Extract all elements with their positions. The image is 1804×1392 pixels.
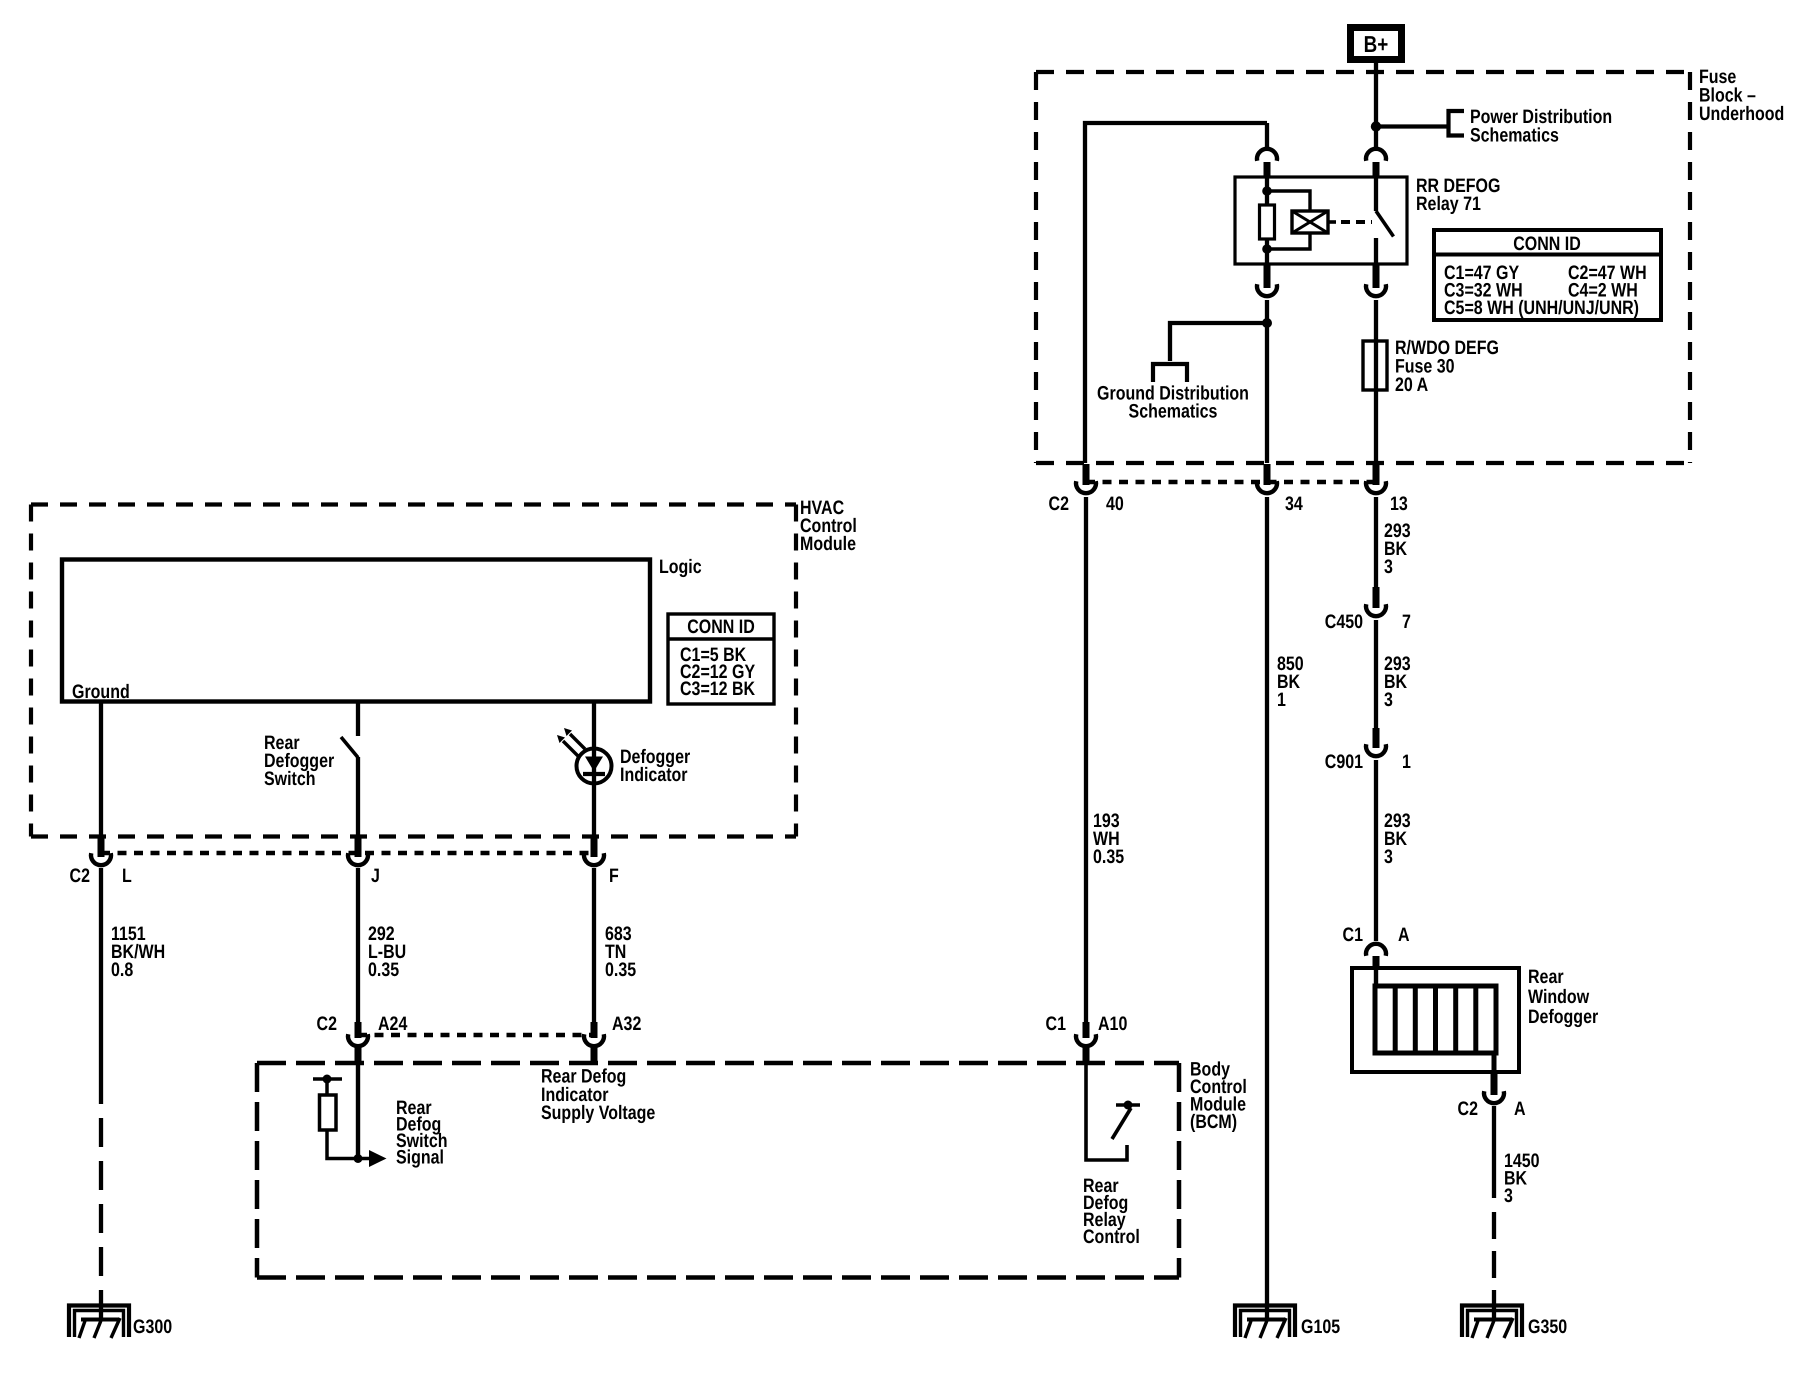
svg-text:34: 34	[1285, 493, 1303, 515]
svg-text:L: L	[122, 865, 132, 887]
svg-text:B+: B+	[1364, 31, 1389, 57]
svg-text:3: 3	[1384, 556, 1393, 578]
svg-text:1: 1	[1402, 751, 1411, 773]
svg-text:CONN ID: CONN ID	[1513, 233, 1581, 255]
svg-text:1: 1	[1277, 689, 1286, 711]
svg-text:0.35: 0.35	[368, 959, 399, 981]
svg-text:Signal: Signal	[396, 1147, 444, 1169]
svg-text:Underhood: Underhood	[1699, 103, 1784, 125]
svg-text:A10: A10	[1098, 1013, 1127, 1035]
svg-text:A24: A24	[378, 1013, 407, 1035]
svg-text:C1: C1	[1343, 924, 1364, 946]
svg-text:13: 13	[1390, 493, 1408, 515]
svg-text:Switch: Switch	[264, 768, 316, 790]
svg-text:Rear: Rear	[1528, 966, 1564, 988]
svg-text:0.35: 0.35	[605, 959, 636, 981]
svg-text:Indicator: Indicator	[620, 764, 688, 786]
svg-text:C2: C2	[1049, 493, 1070, 515]
svg-text:C2: C2	[1458, 1098, 1479, 1120]
svg-text:(BCM): (BCM)	[1190, 1111, 1237, 1133]
svg-text:Schematics: Schematics	[1470, 125, 1559, 147]
svg-text:A: A	[1514, 1098, 1526, 1120]
svg-text:A32: A32	[612, 1013, 641, 1035]
svg-text:Control: Control	[1083, 1226, 1140, 1248]
svg-text:G300: G300	[133, 1316, 172, 1338]
svg-text:F: F	[609, 865, 619, 887]
svg-text:40: 40	[1106, 493, 1124, 515]
svg-text:C901: C901	[1325, 751, 1363, 773]
svg-text:A: A	[1398, 924, 1410, 946]
svg-text:Defogger: Defogger	[1528, 1006, 1599, 1028]
svg-text:3: 3	[1384, 846, 1393, 868]
svg-text:C2: C2	[317, 1013, 338, 1035]
svg-text:Ground: Ground	[72, 681, 130, 703]
svg-text:G350: G350	[1528, 1316, 1567, 1338]
svg-text:Logic: Logic	[659, 556, 702, 578]
svg-text:Schematics: Schematics	[1129, 401, 1218, 423]
svg-text:C2: C2	[70, 865, 91, 887]
svg-text:J: J	[371, 865, 380, 887]
svg-text:3: 3	[1384, 689, 1393, 711]
svg-text:C1: C1	[1046, 1013, 1067, 1035]
svg-text:0.8: 0.8	[111, 959, 133, 981]
svg-text:C3=12 BK: C3=12 BK	[680, 678, 755, 700]
svg-text:20 A: 20 A	[1395, 374, 1428, 396]
svg-text:7: 7	[1402, 611, 1411, 633]
svg-text:Relay 71: Relay 71	[1416, 193, 1481, 215]
svg-text:3: 3	[1504, 1185, 1513, 1207]
svg-text:Module: Module	[800, 533, 856, 555]
svg-text:0.35: 0.35	[1093, 846, 1124, 868]
svg-text:C450: C450	[1325, 611, 1363, 633]
svg-text:G105: G105	[1301, 1316, 1340, 1338]
svg-text:C5=8 WH (UNH/UNJ/UNR): C5=8 WH (UNH/UNJ/UNR)	[1444, 297, 1639, 319]
svg-text:CONN ID: CONN ID	[687, 616, 755, 638]
svg-text:Window: Window	[1528, 986, 1590, 1008]
svg-text:Supply Voltage: Supply Voltage	[541, 1102, 655, 1124]
